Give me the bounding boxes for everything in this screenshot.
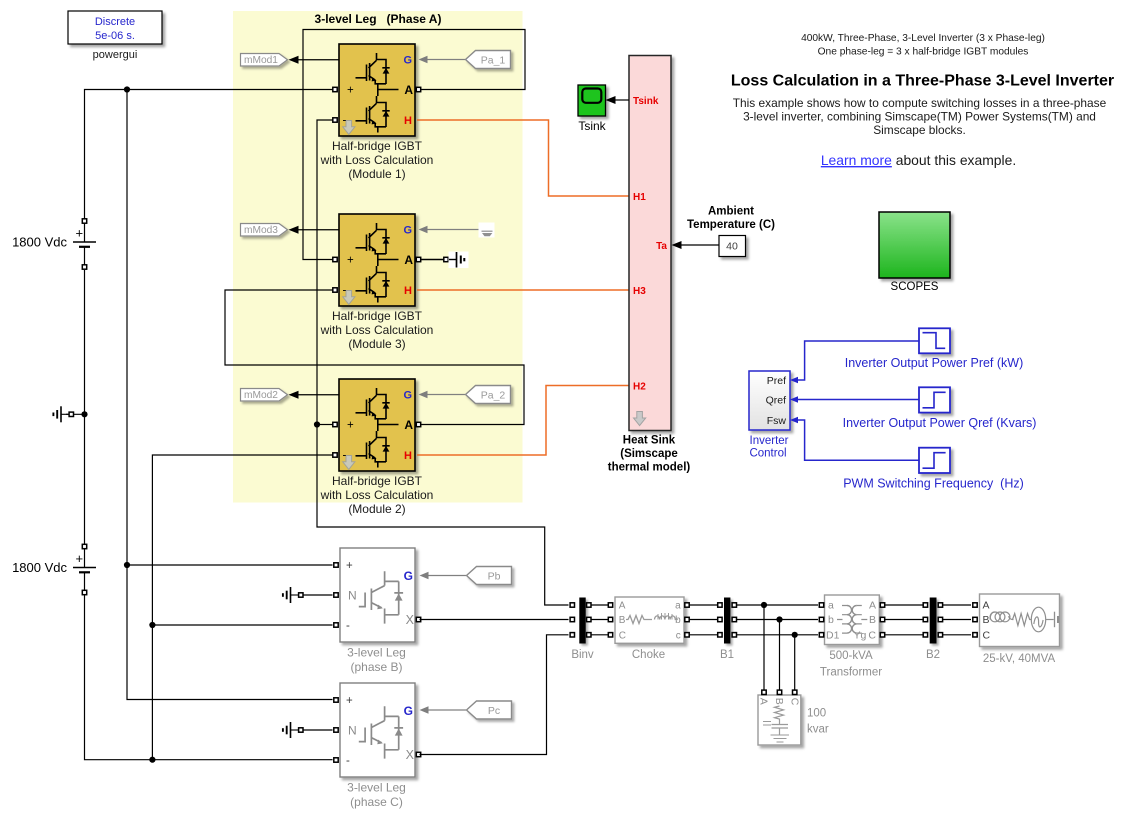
wire module2 - down to DC- rail — [152, 455, 332, 760]
wire module1 - to module2 + and down to Binv A — [317, 120, 569, 605]
svg-text:B: B — [619, 615, 626, 626]
svg-text:Pa_2: Pa_2 — [481, 389, 506, 401]
svg-text:B2: B2 — [926, 649, 940, 661]
constant block 40 — [719, 236, 746, 257]
wire heat sink Tsink to scope — [614, 99, 629, 101]
half-bridge IGBT module U1 — [333, 44, 421, 136]
svg-text:H3: H3 — [633, 286, 646, 297]
svg-text:Qref: Qref — [766, 394, 787, 406]
subsystem Inverter Control — [749, 371, 790, 430]
step source: Inverter Output Power Pref (kW) — [919, 328, 950, 353]
junction midpoint ground — [81, 411, 87, 417]
wire phase C X to Binv C — [420, 635, 569, 755]
wires transformer to B2 — [885, 604, 923, 606]
wire mMod1 output — [297, 59, 339, 61]
svg-text:B: B — [773, 698, 785, 705]
svg-text:3-level Leg (Phase A): 3-level Leg (Phase A) — [315, 12, 442, 26]
source 25-kV 40MVA — [980, 594, 1060, 647]
svg-text:a: a — [675, 601, 681, 612]
svg-text:Learn more about this example.: Learn more about this example. — [821, 152, 1016, 168]
wire H module3 to heat sink H3 — [417, 289, 629, 291]
wire DC+ branch to phase B + — [127, 564, 333, 566]
svg-text:Tsink: Tsink — [578, 119, 606, 133]
svg-text:Discrete: Discrete — [95, 16, 135, 28]
yellow background region: 3-level Leg Phase A — [233, 11, 523, 503]
svg-text:Fsw: Fsw — [767, 415, 787, 427]
wires B1 to transformer with taps — [737, 604, 818, 606]
ground at phase B N — [283, 587, 303, 603]
wires B2 to source — [943, 604, 971, 606]
junction phase B - — [149, 622, 155, 628]
svg-text:Choke: Choke — [632, 649, 665, 661]
electrical reference icon at module3 A — [449, 252, 469, 269]
wires Binv to Choke — [591, 604, 608, 606]
svg-text:b: b — [675, 615, 681, 626]
svg-text:C: C — [983, 630, 991, 642]
svg-text:1800 Vdc: 1800 Vdc — [12, 235, 67, 250]
svg-text:500-kVA: 500-kVA — [829, 650, 873, 662]
wire module3 G stub (unconnected) — [427, 229, 486, 231]
subsystem 3-level Leg phase B — [334, 548, 421, 642]
wire phase B X to Binv B — [420, 619, 569, 621]
wires Choke to B1 — [689, 604, 717, 606]
svg-text:Transformer: Transformer — [820, 667, 882, 679]
svg-text:powergui: powergui — [93, 49, 138, 61]
battery V1 1800 Vdc — [73, 219, 96, 269]
svg-text:(Module 1): (Module 1) — [348, 167, 405, 181]
from tag Pa_2 — [466, 386, 511, 404]
powergui block — [68, 11, 162, 61]
svg-text:Heat Sink: Heat Sink — [623, 435, 676, 447]
svg-text:Half-bridge IGBT: Half-bridge IGBT — [332, 309, 423, 323]
svg-text:Pc: Pc — [488, 705, 500, 717]
svg-text:Half-bridge IGBT: Half-bridge IGBT — [332, 474, 423, 488]
svg-text:A: A — [983, 600, 990, 612]
wire DC+ branch down to phase C + — [127, 90, 333, 700]
wire step Qref to control — [798, 399, 919, 401]
junction DC- / phase C - — [149, 757, 155, 763]
svg-text:Pa_1: Pa_1 — [481, 54, 506, 66]
wire H module1 to heat sink H1 — [417, 120, 629, 196]
svg-text:40: 40 — [726, 241, 738, 253]
ground G1 (DC midpoint) — [53, 406, 73, 422]
capacitor bank 100 kvar — [758, 695, 801, 745]
bus measurement Binv — [579, 598, 585, 644]
wire mMod3 output — [297, 229, 339, 231]
step source: Inverter Output Power Qref (Kvars) — [919, 387, 950, 412]
wire G input from tag Pa_2 — [427, 394, 465, 396]
svg-text:400kW, Three-Phase, 3-Level In: 400kW, Three-Phase, 3-Level Inverter (3 … — [801, 33, 1045, 44]
svg-text:C: C — [788, 698, 800, 706]
wire branch to phase B - — [152, 624, 332, 626]
svg-text:with Loss Calculation: with Loss Calculation — [320, 323, 434, 337]
svg-text:A: A — [619, 601, 626, 612]
from tag Pb — [467, 567, 512, 585]
svg-text:C: C — [868, 630, 876, 642]
wire constant 40 to heat sink Ta — [680, 244, 719, 246]
svg-text:(Module 2): (Module 2) — [348, 502, 405, 516]
svg-text:Inverter: Inverter — [750, 435, 789, 447]
svg-text:25-kV, 40MVA: 25-kV, 40MVA — [983, 653, 1056, 665]
svg-text:with Loss Calculation: with Loss Calculation — [320, 153, 434, 167]
svg-text:(phase B): (phase B) — [350, 660, 402, 674]
from tag Pc — [467, 701, 512, 719]
svg-text:Temperature (C): Temperature (C) — [687, 219, 775, 231]
svg-text:Inverter Output Power Qref (Kv: Inverter Output Power Qref (Kvars) — [843, 416, 1037, 430]
svg-text:Half-bridge IGBT: Half-bridge IGBT — [332, 139, 423, 153]
wire H module2 to heat sink H2 — [417, 386, 629, 456]
svg-text:mMod2: mMod2 — [244, 390, 278, 401]
half-bridge IGBT module U2 — [333, 379, 421, 471]
svg-text:One phase-leg = 3 x half-bridg: One phase-leg = 3 x half-bridge IGBT mod… — [818, 47, 1029, 58]
svg-text:mMod1: mMod1 — [244, 55, 278, 66]
svg-text:5e-06 s.: 5e-06 s. — [95, 30, 135, 42]
junction phase B + — [124, 562, 130, 568]
wire step Pref to control — [798, 341, 919, 380]
wire module3 - to module2 A — [225, 290, 524, 425]
heat sink block — [629, 56, 671, 431]
bus measurement B2 — [930, 598, 937, 644]
svg-text:a: a — [828, 600, 834, 612]
goto tag mMod3 — [241, 224, 288, 237]
svg-text:Binv: Binv — [571, 649, 594, 661]
battery V2 1800 Vdc — [73, 544, 96, 594]
junction DC+ branch — [124, 86, 130, 92]
wire G input phase B — [427, 575, 466, 577]
svg-text:b: b — [828, 614, 834, 626]
goto tag mMod1 — [241, 54, 288, 67]
wire DC+ rail (battery V1 top to Module1 +) — [85, 90, 333, 220]
svg-text:c: c — [676, 631, 681, 642]
from tag Pa_1 — [466, 51, 511, 69]
svg-text:Inverter Output Power Pref (kW: Inverter Output Power Pref (kW) — [845, 356, 1024, 370]
bus measurement B1 — [724, 598, 730, 644]
svg-text:(phase C): (phase C) — [350, 795, 403, 809]
svg-text:H2: H2 — [633, 381, 646, 392]
svg-text:3-level inverter, combining Si: 3-level inverter, combining Simscape(TM)… — [743, 110, 1096, 124]
svg-text:1800 Vdc: 1800 Vdc — [12, 560, 67, 575]
svg-text:Loss Calculation in a Three-Ph: Loss Calculation in a Three-Phase 3-Leve… — [731, 73, 1114, 90]
svg-text:B1: B1 — [720, 649, 734, 661]
wire step Fsw to control — [798, 420, 919, 460]
svg-text:C: C — [619, 631, 626, 642]
svg-text:A: A — [869, 600, 876, 612]
three-phase series RL Choke — [615, 597, 684, 643]
scope Tsink — [578, 85, 606, 116]
wire ground lead to midpoint — [66, 413, 85, 415]
step source: PWM Switching Frequency&#160; (Hz) — [919, 448, 950, 473]
svg-text:Control: Control — [749, 448, 786, 460]
wire module3 A to electrical reference — [421, 259, 446, 261]
svg-text:thermal model): thermal model) — [608, 462, 691, 474]
svg-text:(Module 3): (Module 3) — [348, 337, 405, 351]
subsystem 3-level Leg phase C — [334, 683, 421, 777]
junction module2 + — [314, 421, 320, 427]
svg-text:Yg: Yg — [854, 630, 867, 642]
subsystem SCOPES — [879, 212, 950, 278]
transformer 500-kVA — [825, 595, 880, 645]
svg-text:SCOPES: SCOPES — [891, 281, 939, 293]
taps down to 100 kvar bank — [763, 605, 765, 690]
svg-text:Ta: Ta — [656, 241, 667, 252]
svg-text:PWM Switching Frequency (Hz): PWM Switching Frequency (Hz) — [843, 477, 1024, 491]
svg-text:100: 100 — [807, 708, 826, 720]
svg-text:B: B — [983, 614, 990, 626]
svg-text:mMod3: mMod3 — [244, 225, 278, 236]
wire DC- rail (battery V2 bottom to phase C -) — [85, 595, 333, 760]
half-bridge IGBT module U3 — [333, 214, 421, 306]
svg-text:H1: H1 — [633, 192, 646, 203]
wire G input phase C — [427, 709, 466, 711]
svg-text:Pref: Pref — [767, 375, 786, 387]
svg-text:(Simscape: (Simscape — [620, 448, 678, 460]
svg-text:B: B — [869, 614, 876, 626]
svg-text:kvar: kvar — [807, 724, 829, 736]
svg-text:Tsink: Tsink — [633, 96, 659, 107]
svg-text:3-level Leg: 3-level Leg — [347, 781, 406, 795]
wire G input from tag Pa_1 — [427, 59, 465, 61]
svg-text:Simscape blocks.: Simscape blocks. — [873, 123, 966, 137]
ground at phase C N — [283, 722, 303, 738]
svg-text:This example shows how to comp: This example shows how to compute switch… — [733, 96, 1107, 110]
wire module1 A loop to module3 + — [303, 30, 525, 260]
svg-text:Pb: Pb — [488, 570, 501, 582]
unconnected terminator icon on module3 G — [479, 223, 495, 238]
wire mMod2 output — [297, 394, 339, 396]
svg-text:A: A — [758, 698, 770, 705]
svg-text:with Loss Calculation: with Loss Calculation — [320, 488, 434, 502]
goto tag mMod2 — [241, 389, 288, 402]
wire battery V1 bottom to battery V2 top (midpoint) — [84, 270, 86, 544]
svg-text:Ambient: Ambient — [708, 206, 754, 218]
svg-text:3-level Leg: 3-level Leg — [347, 646, 406, 660]
svg-text:D1: D1 — [826, 630, 840, 642]
